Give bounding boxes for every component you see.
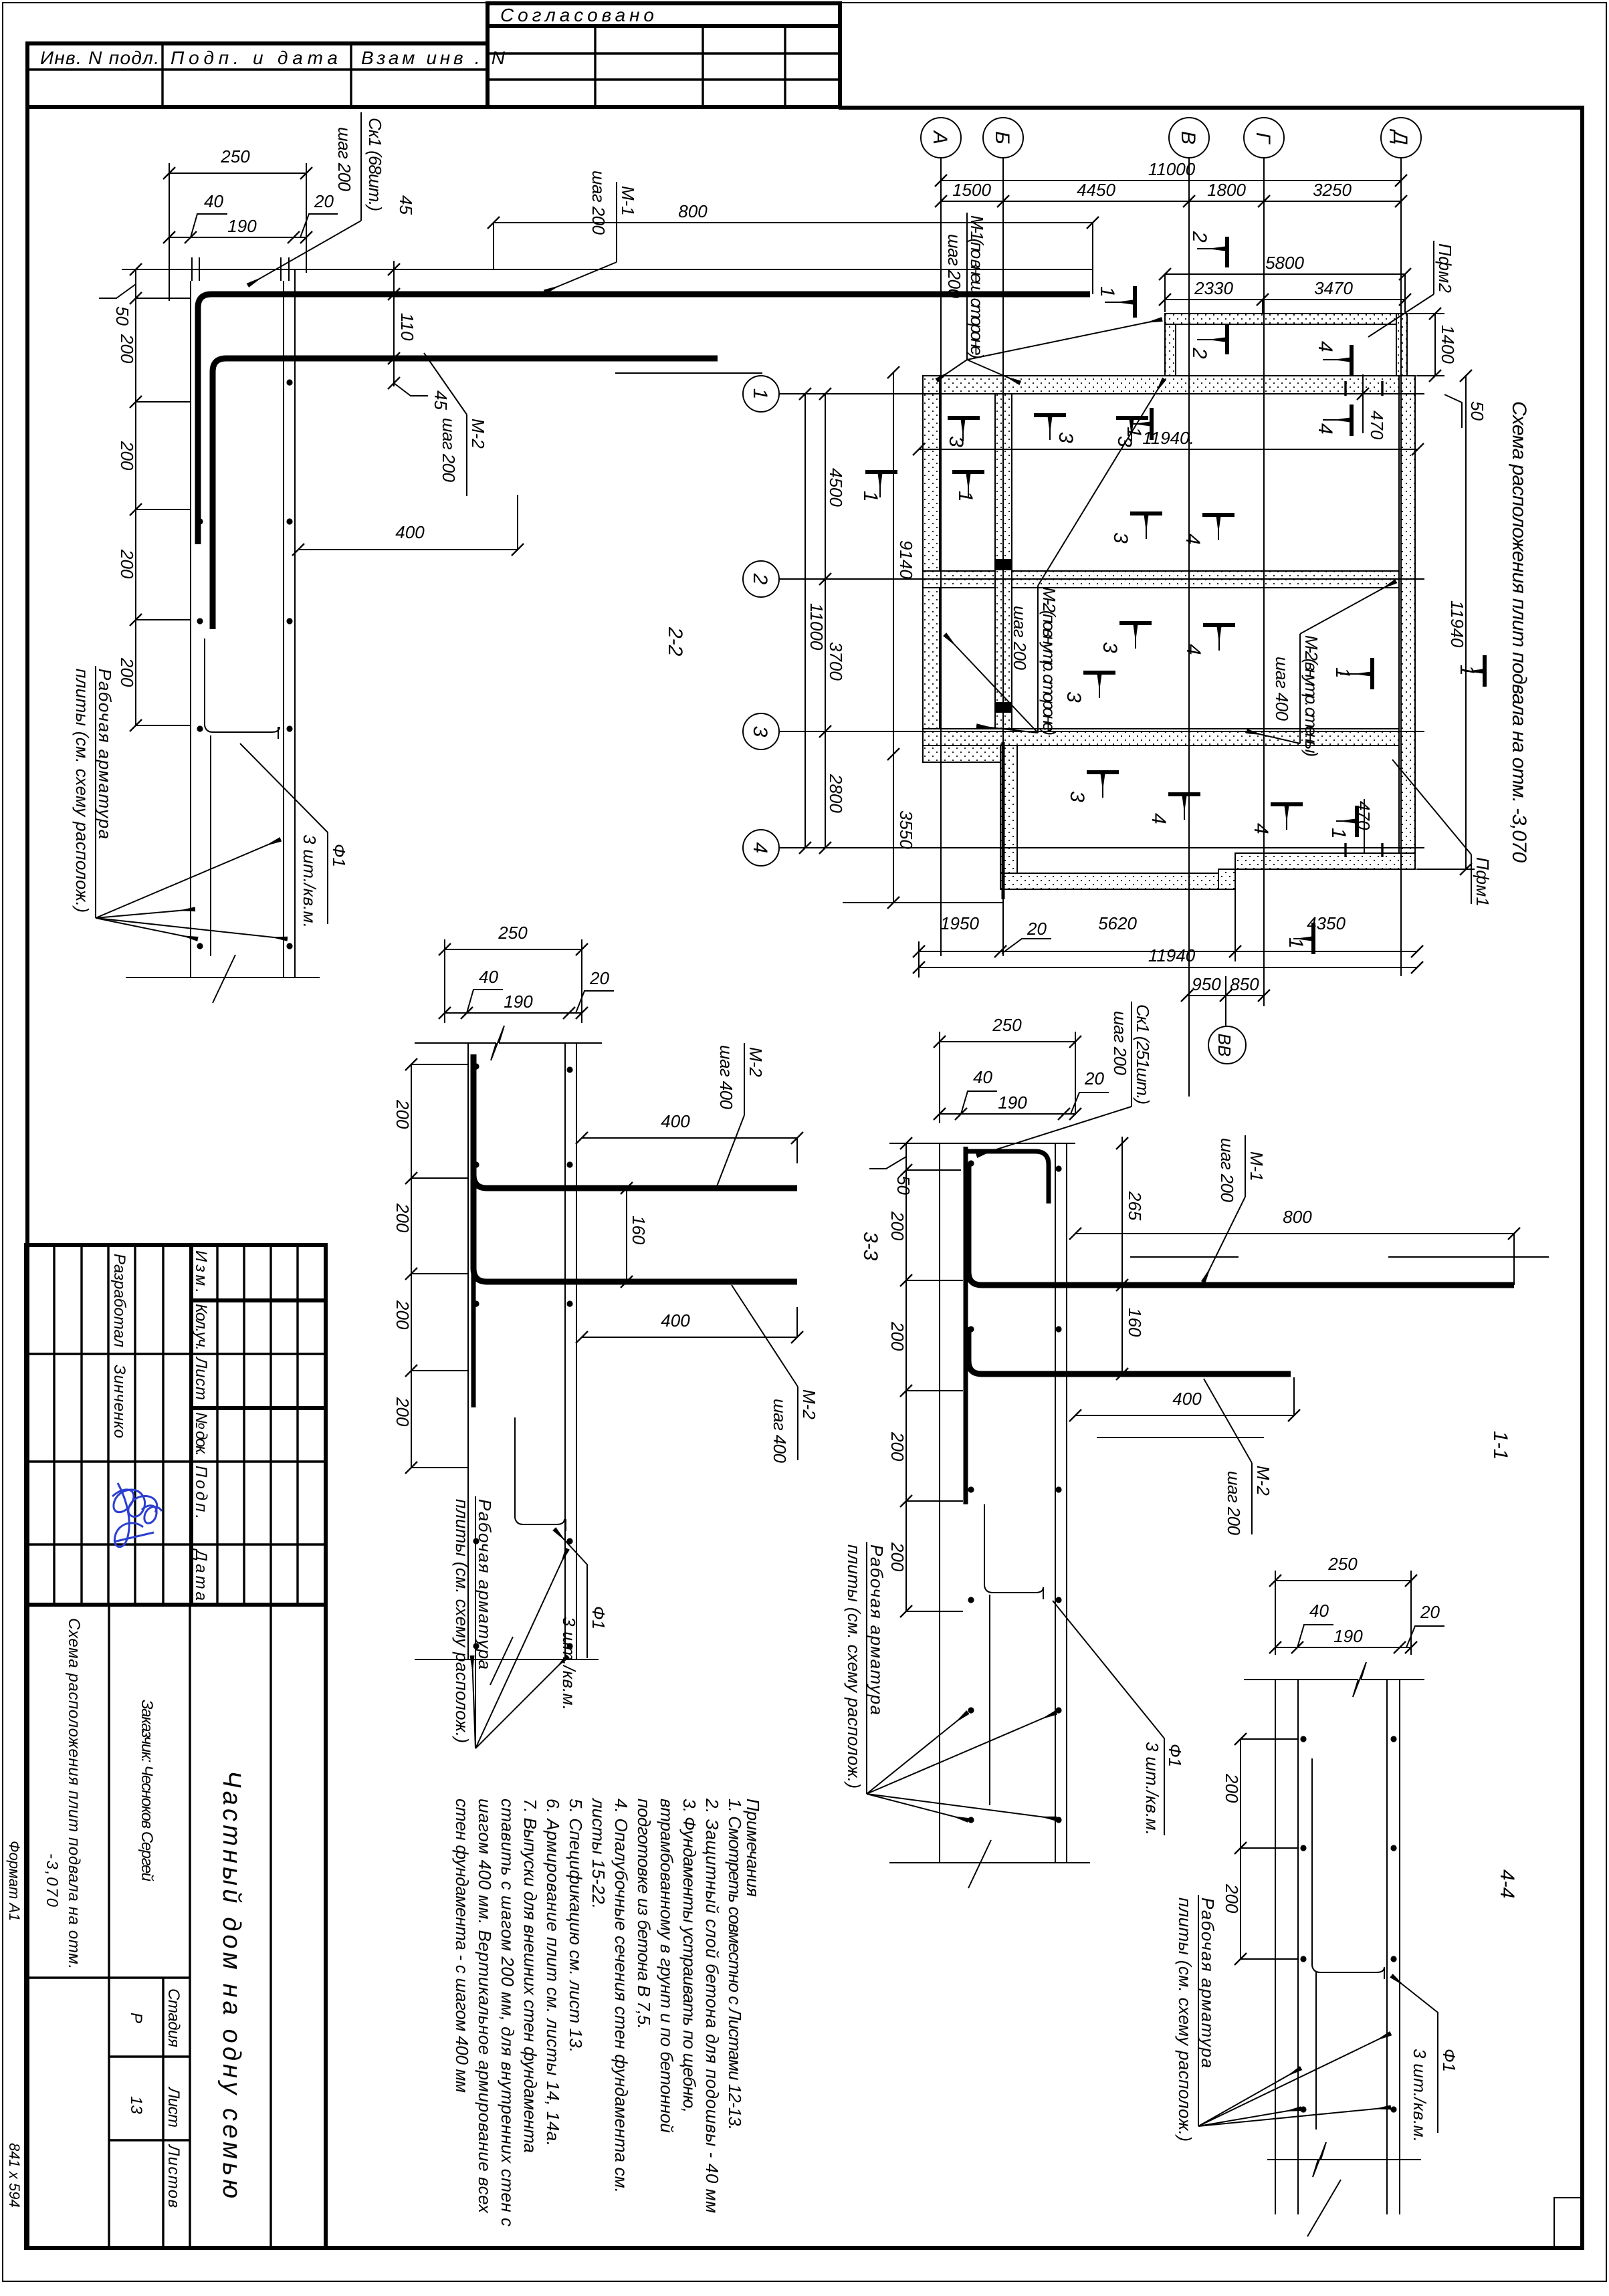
label М-1 шаг 200 (section) [546,170,638,292]
label М-1(по внеш. стороне) шаг 200 [938,213,1161,382]
dim 470 top [1346,374,1387,440]
svg-text:шаг 200: шаг 200 [944,234,964,299]
svg-text:Ф1: Ф1 [1439,2049,1459,2072]
svg-text:400: 400 [395,522,425,542]
svg-text:4500: 4500 [826,468,846,507]
svg-text:190: 190 [227,216,257,236]
svg-text:шаг 200: шаг 200 [588,170,609,235]
node BB circle [1208,1026,1246,1064]
svg-text:1500: 1500 [952,180,991,200]
svg-text:190: 190 [504,992,533,1012]
svg-text:М-2(внутр. стены): М-2(внутр. стены) [1301,635,1321,757]
dim 250 [1269,1554,1417,1655]
svg-text:3550: 3550 [896,810,916,849]
marker 3 south room [1066,772,1119,802]
dim 800 [1069,1207,1549,1285]
dim chain 950 850 [1181,974,1270,1026]
dim 160 [621,1182,649,1288]
marker 2 in annex [1188,324,1227,359]
label Ск1 (251шт.) шаг 200 [978,1002,1153,1155]
svg-text:2330: 2330 [1194,278,1233,298]
svg-text:200: 200 [887,1321,907,1351]
north wall [923,376,1415,394]
svg-text:40: 40 [204,191,223,211]
svg-text:Рабочая арматура: Рабочая арматура [1198,1898,1218,2068]
svg-text:В: В [1177,131,1199,144]
svg-text:1: 1 [1327,828,1350,839]
signature (blue) [112,1483,162,1547]
label Рабочая арматура (1-1) [844,1542,1055,1820]
dim 250 [934,1015,1081,1123]
marker 3 row-1 c [1113,418,1148,447]
svg-text:2: 2 [749,573,771,585]
svg-text:Подп.: Подп. [192,1466,210,1519]
svg-text:Согласовано: Согласовано [500,5,654,25]
rebar М-1 (L-bar long) [968,1163,1514,1285]
dim 45 lower [388,358,451,410]
svg-text:250: 250 [1327,1554,1358,1574]
svg-text:3. Фундаменты устраивать по ще: 3. Фундаменты устраивать по щебню, [679,1799,700,2113]
marker 3 mid c [1063,673,1115,703]
svg-text:-3,070: -3,070 [43,1853,61,1908]
marker 4 south a [1148,794,1200,824]
label М-2 шаг 200 [1204,1379,1273,1536]
svg-text:М-2: М-2 [799,1389,819,1419]
label Пфм1 [1392,760,1493,907]
dim 110 [388,313,417,364]
svg-text:шаг 200: шаг 200 [439,418,459,483]
svg-text:200: 200 [117,441,137,471]
rebar vertical bar [471,1054,476,1407]
svg-text:1: 1 [1331,667,1354,679]
svg-text:3: 3 [749,726,771,737]
wall on axis 3 [923,729,1399,745]
svg-text:20: 20 [1027,919,1047,939]
svg-text:Кол.уч.: Кол.уч. [192,1304,210,1351]
axis circles top [921,118,1421,158]
svg-text:400: 400 [661,1310,690,1331]
top-left margin table: Инв. N подл / Подп. и дата / Взам инв. N [27,43,506,107]
dim chain 40 190 20 [934,1067,1109,1120]
svg-text:Пфм1: Пфм1 [1473,857,1493,907]
marker 3 mid a [1109,513,1162,544]
formwork lines [940,1143,1067,1863]
svg-text:Заказчик: Чесноков Сергей: Заказчик: Чесноков Сергей [138,1700,156,1881]
dim 400 upper [576,1111,803,1163]
marker 3 row-1 a [945,418,980,447]
left dim chain 200 x4 [393,1058,468,1474]
svg-text:400: 400 [661,1111,690,1131]
svg-text:200: 200 [1222,1883,1242,1914]
svg-text:841 х 594: 841 х 594 [6,2143,23,2208]
svg-text:шаг 200: шаг 200 [1224,1471,1244,1536]
svg-text:4: 4 [749,842,771,854]
label Пфм2 [1368,241,1455,337]
svg-text:шагом 400 мм. Вертикальное арм: шагом 400 мм. Вертикальное армирование в… [475,1799,495,2214]
formwork lines [468,1043,576,1659]
svg-text:Разработал: Разработал [110,1254,128,1347]
label М-2(повнутр. стороне) шаг 200 [946,380,1164,735]
svg-text:1. Смотреть совместно с Листам: 1. Смотреть совместно с Листами 12-13. [725,1799,745,2130]
top edge with break [1244,1662,1424,1697]
svg-text:Схема расположения плит подвал: Схема расположения плит подвала на отм. … [1508,401,1530,863]
dim 400 [1069,1377,1300,1438]
dim 50 left [99,263,142,326]
svg-text:3 шт./кв.м.: 3 шт./кв.м. [1410,2049,1430,2142]
svg-text:250: 250 [992,1015,1022,1035]
svg-text:4450: 4450 [1077,180,1115,200]
svg-text:3470: 3470 [1314,278,1353,298]
marker 1 bottom right [1285,923,1313,954]
svg-text:Формат А1: Формат А1 [6,1841,23,1921]
svg-text:1950: 1950 [940,913,979,933]
svg-text:подготовке из бетона В 7,5.: подготовке из бетона В 7,5. [634,1799,654,2029]
right dim 11940 [1416,370,1475,875]
svg-text:Листов: Листов [165,2144,183,2208]
svg-text:Ф1: Ф1 [329,844,349,867]
rebar М-2 (L-bar) [213,358,718,629]
svg-text:470: 470 [1367,411,1387,440]
south wall east part [1235,853,1415,869]
right dim 50 with leader [1444,394,1487,428]
break bottom 1-1 [889,1862,1090,1863]
break bottom 3-3 [415,1659,599,1660]
porch west wall [1000,745,1017,889]
marker 4 below annex [1314,405,1352,436]
svg-text:9140: 9140 [896,540,916,579]
svg-text:40: 40 [479,967,498,987]
marker 1 west outside [859,472,897,502]
label Рабочая арматура (4-4) [1175,1895,1390,2142]
rebar hook bar Ск1 [966,1151,1049,1203]
svg-text:Ск1 (68шт.): Ск1 (68шт.) [365,118,385,211]
svg-text:265: 265 [1125,1191,1145,1221]
svg-text:втрамбованному в грунт и по бе: втрамбованному в грунт и по бетонной [657,1799,677,2133]
svg-text:3: 3 [1063,691,1085,703]
svg-text:400: 400 [1172,1389,1202,1409]
label М-2 шаг 400 upper [716,1043,766,1186]
rebar dots 1-1 [968,1160,1061,1823]
svg-text:1: 1 [1123,427,1145,438]
svg-text:200: 200 [1222,1773,1242,1803]
annex top wall [1165,314,1407,324]
dim chain 40 190 20 [439,967,614,1019]
svg-text:шаг 400: шаг 400 [716,1045,736,1110]
top edge line with break [415,1026,602,1060]
svg-text:200: 200 [887,1431,907,1462]
svg-text:2800: 2800 [826,774,846,813]
svg-text:200: 200 [393,1300,413,1330]
svg-text:200: 200 [887,1211,907,1241]
svg-text:3-3: 3-3 [859,1232,881,1261]
rebar vertical bar [964,1147,968,1504]
label Ск1 (68шт.) шаг 200 [249,112,385,285]
svg-text:М-1: М-1 [1247,1151,1267,1181]
svg-text:3 шт./кв.м.: 3 шт./кв.м. [300,834,320,928]
svg-text:Стадия: Стадия [165,1988,183,2047]
label М-2 шаг 400 lower [732,1285,819,1464]
svg-text:200: 200 [117,549,137,579]
left dim 11000 [799,388,827,854]
svg-text:Лист: Лист [165,2086,183,2128]
svg-text:Рабочая арматура: Рабочая арматура [867,1544,887,1715]
svg-text:листы 15-22.: листы 15-22. [588,1797,609,1909]
svg-text:200: 200 [393,1099,413,1129]
svg-text:3250: 3250 [1313,180,1352,200]
svg-text:20: 20 [589,968,609,988]
dim chain 40 190 20 [163,191,338,243]
svg-text:200: 200 [393,1397,413,1427]
svg-text:3: 3 [1066,791,1088,802]
svg-text:250: 250 [498,923,528,943]
marker 3 mid b [1099,623,1152,653]
svg-text:4. Опалубочные сечения стен фу: 4. Опалубочные сечения стен фундамента с… [611,1799,631,2193]
axis lines horizontal 1 2 3 4 [779,394,1424,848]
marker 1 east inside [1331,658,1372,689]
svg-text:6. Армирование плит см. листы: 6. Армирование плит см. листы 14, 14а. [543,1799,563,2146]
svg-text:Р: Р [127,2013,145,2023]
svg-text:45: 45 [431,390,451,410]
svg-text:1: 1 [954,491,976,502]
svg-text:М-2: М-2 [468,419,488,449]
svg-text:4: 4 [1182,534,1204,545]
svg-text:плиты (см. схему располож.): плиты (см. схему располож.) [844,1544,864,1789]
break bottom 4-4 [1267,2142,1421,2177]
top slab lines [889,1143,1075,1144]
svg-text:5800: 5800 [1265,253,1304,273]
dim chain 2330 3470 [1159,278,1411,314]
right dim 1400 [1408,308,1458,382]
svg-text:190: 190 [998,1093,1027,1113]
label М-2(внутр. стены) шаг 400 [1248,582,1395,757]
west step wall [923,745,1000,762]
label Рабочая арматура плиты [72,666,286,939]
dim 400 lower [576,1307,803,1343]
svg-text:3 шт./кв.м.: 3 шт./кв.м. [559,1617,579,1710]
svg-text:20: 20 [1084,1068,1104,1088]
svg-text:160: 160 [629,1216,649,1245]
svg-text:2-2: 2-2 [664,626,686,657]
svg-text:1: 1 [1456,665,1478,676]
svg-text:800: 800 [1283,1207,1312,1227]
svg-text:20: 20 [1420,1602,1440,1622]
marker 3 row-1 b [1034,415,1077,443]
svg-text:Д: Д [1389,128,1411,144]
bottom dim chain 1950 5620 4350 [913,889,1423,978]
svg-text:шаг 400: шаг 400 [1272,657,1292,721]
dim 160 [1116,1285,1145,1380]
svg-text:200: 200 [887,1542,907,1572]
svg-text:М-1(по внеш. стороне): М-1(по внеш. стороне) [967,215,987,359]
svg-text:шаг 200: шаг 200 [1110,1011,1130,1076]
svg-text:50: 50 [112,306,132,326]
svg-text:200: 200 [117,334,137,364]
rebar dots 3-3 [473,1063,572,1649]
svg-text:2: 2 [1188,347,1210,359]
svg-text:200: 200 [117,657,137,687]
porch east step [1218,869,1235,889]
svg-text:шаг 200: шаг 200 [1010,606,1030,671]
svg-text:4: 4 [1314,341,1336,352]
svg-text:Ф1: Ф1 [1165,1744,1185,1767]
svg-text:3: 3 [1109,532,1132,544]
svg-text:А: А [929,130,951,144]
svg-text:Ф1: Ф1 [588,1606,609,1629]
hat spacer 4-4 [1312,1758,1384,2130]
rebar М-1 (L-bar) [198,294,1090,544]
svg-text:5. Спецификацию см. лист 13.: 5. Спецификацию см. лист 13. [566,1799,586,2053]
svg-text:40: 40 [973,1067,992,1087]
east wall [1399,376,1415,869]
svg-text:11000: 11000 [807,603,827,651]
wall on axis 2 [923,571,1399,588]
marker 1 east outside [1456,655,1485,687]
formwork lines [191,257,295,978]
svg-text:160: 160 [1125,1308,1145,1337]
svg-text:Пфм2: Пфм2 [1435,243,1455,294]
svg-text:М-2(повнутр. стороне): М-2(повнутр. стороне) [1039,587,1059,735]
svg-text:3 шт./кв.м.: 3 шт./кв.м. [1142,1742,1162,1835]
svg-text:М-2: М-2 [746,1047,766,1077]
svg-text:1: 1 [749,388,771,400]
svg-text:40: 40 [1309,1601,1329,1621]
svg-text:4: 4 [1314,423,1336,435]
dim 50 [869,1137,914,1195]
svg-text:4: 4 [1148,813,1170,824]
svg-text:4-4: 4-4 [1496,1869,1518,1898]
dim 20 with leader [1002,919,1051,953]
west wall [923,376,940,745]
marker 4 in annex [1314,341,1352,376]
hat spacer 1-1 [984,1504,1043,1805]
left dim chain 200x4 [117,269,191,731]
svg-text:Частный дом на одну семью: Частный дом на одну семью [217,1770,245,2198]
dim 470 bottom [1346,799,1382,857]
top dim chain 1500 4450 1800 3250 [935,180,1407,207]
svg-text:200: 200 [393,1203,413,1233]
svg-text:1400: 1400 [1438,325,1458,364]
svg-text:1: 1 [1096,286,1118,298]
svg-text:7. Выпуски для внешних стен фу: 7. Выпуски для внешних стен фундамента [520,1799,540,2153]
svg-text:плиты (см. схему располож.): плиты (см. схему располож.) [452,1499,472,1743]
label Ф1 3шт (1-1) [1053,1601,1185,1835]
marker 1 south [1327,806,1357,839]
rebar М-2 (L-bar) [968,1327,1291,1374]
svg-text:Ск1 (251шт.): Ск1 (251шт.) [1133,1004,1153,1105]
svg-text:2. Защитный слой бетона для по: 2. Защитный слой бетона для подошвы - 40… [702,1798,722,2213]
svg-text:11940: 11940 [1447,600,1467,648]
marker 4 mid a [1182,515,1235,545]
wall bands with dot hatch [923,314,1415,899]
left dim chain 200 x2 [1222,1733,1298,1965]
marker 1 row-1 [1123,408,1152,440]
svg-text:3: 3 [1055,432,1077,443]
svg-text:М-2: М-2 [1253,1466,1273,1496]
svg-text:11000: 11000 [1148,159,1196,179]
svg-text:ставить с шагом 200 мм, для вн: ставить с шагом 200 мм, для внутренних с… [498,1799,518,2226]
svg-text:Взам инв . N: Взам инв . N [361,47,506,68]
dim 5800 [1159,253,1411,312]
svg-text:Рабочая арматура: Рабочая арматура [475,1499,495,1670]
svg-text:Подп. и дата: Подп. и дата [171,47,338,68]
svg-text:Зинченко: Зинченко [110,1365,128,1438]
rebar dots 4-4 [1300,1736,1396,2112]
svg-text:190: 190 [1333,1626,1363,1646]
annex left wall [1165,314,1176,376]
svg-text:шаг 200: шаг 200 [1217,1138,1237,1203]
svg-text:1800: 1800 [1207,180,1246,200]
svg-text:ВВ: ВВ [1214,1034,1235,1057]
svg-text:Г: Г [1252,132,1274,145]
top dim 11000 [935,159,1407,187]
label М-1 шаг 200 [1204,1135,1267,1281]
svg-text:110: 110 [397,313,417,341]
svg-text:3700: 3700 [826,642,846,681]
top Согласовано table [488,3,840,107]
svg-text:4: 4 [1182,644,1204,655]
svg-text:1: 1 [859,491,881,502]
hat spacer Ф1 in wall [205,639,280,956]
svg-text:50: 50 [893,1175,914,1195]
annex right wall [1396,314,1407,376]
svg-text:50: 50 [1467,401,1487,421]
svg-text:Рабочая арматура: Рабочая арматура [95,669,115,839]
label М-2 шаг 200 (section) [424,353,488,496]
svg-text:шаг 400: шаг 400 [770,1399,790,1464]
rebar М-2 upper (L-bar) [473,1054,797,1188]
svg-text:4: 4 [1250,823,1272,834]
svg-text:5620: 5620 [1098,913,1137,933]
svg-text:2: 2 [1188,231,1210,243]
svg-text:11940: 11940 [1148,945,1196,965]
rebar М-2 lower (L-bar) [473,1161,797,1282]
dim 45 top [388,195,416,361]
svg-text:3: 3 [1099,642,1121,653]
interior wall on axis Б [995,394,1012,729]
dim 400 [292,495,524,556]
svg-text:45: 45 [396,195,416,215]
svg-text:Б: Б [991,131,1013,144]
svg-text:стен фундамента - с шагом 400: стен фундамента - с шагом 400 мм [452,1799,472,2093]
svg-text:Инв. N подл.: Инв. N подл. [40,47,159,68]
formwork lines 4-4 [1275,1680,1400,2236]
svg-text:плиты (см. схему располож.): плиты (см. схему располож.) [72,669,92,913]
left dim 9140 / 3550 [615,366,1003,909]
axis lines vertical А Б В Г Д [941,158,1401,1097]
break symbol bottom [126,977,320,978]
dim 250 [163,146,312,301]
label Ф1 3шт (3-3) [555,1530,609,1710]
svg-text:шаг 200: шаг 200 [334,127,354,192]
slab edge thick line [1002,742,1005,899]
left dim chain 4500 3700 2800 [819,388,846,854]
svg-text:800: 800 [678,201,708,221]
svg-text:850: 850 [1230,974,1259,994]
corner box bottom right [1554,2198,1582,2248]
svg-text:1-1: 1-1 [1489,1431,1511,1460]
svg-text:13: 13 [127,2096,145,2114]
marker 1 top [1096,286,1135,318]
svg-text:Схема расположения плит подвал: Схема расположения плит подвала на отм. [65,1618,83,1969]
svg-text:250: 250 [220,146,250,166]
marker 4 south b [1250,804,1303,834]
svg-text:№ док.: № док. [192,1412,210,1456]
hat spacer [515,1417,566,1531]
dim 265 [1116,1137,1145,1291]
rebar dots section 2-2 [197,379,292,949]
dim 800 [488,201,1099,294]
bottom overall dim 11940 [913,945,1423,973]
